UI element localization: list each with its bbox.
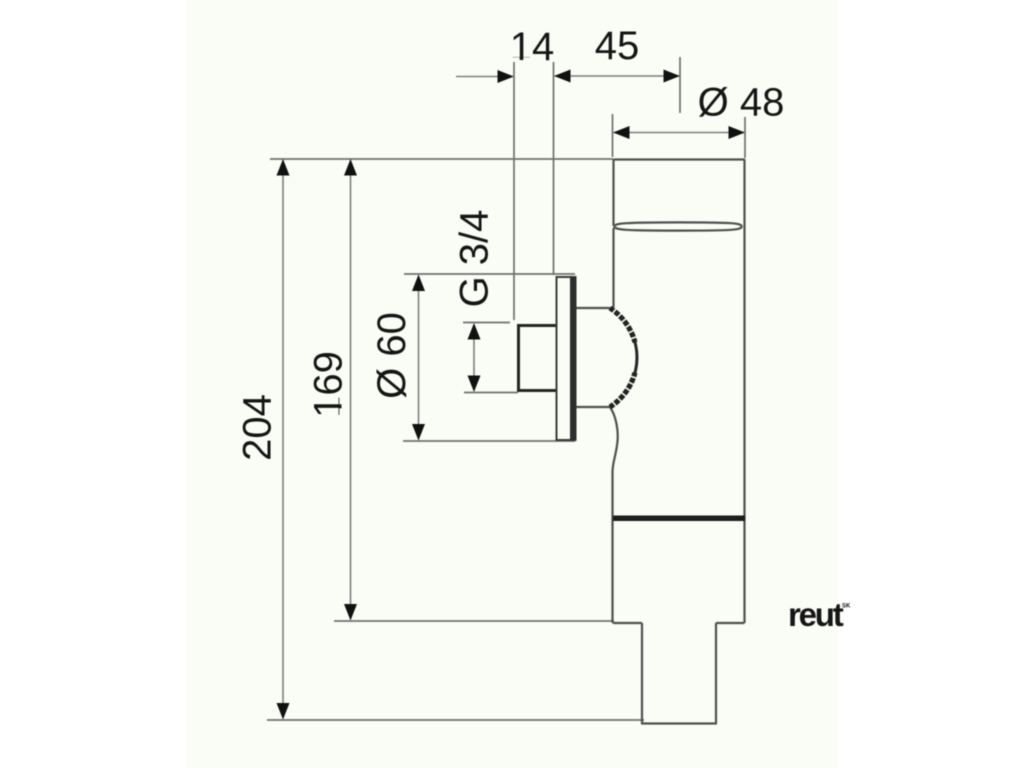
body main outline	[610, 226, 745, 623]
outlet pipe	[641, 623, 717, 724]
extension line bottom for 169	[334, 620, 614, 622]
dimension 45	[554, 24, 680, 83]
svg-text:204: 204	[236, 394, 280, 461]
svg-text:169: 169	[307, 351, 351, 418]
svg-text:SK: SK	[842, 604, 851, 610]
svg-text:14: 14	[510, 25, 555, 69]
svg-text:reut: reut	[788, 596, 844, 633]
extension line G3/4 bottom	[464, 392, 518, 394]
svg-text:Ø 60: Ø 60	[370, 312, 414, 399]
svg-text:Ø 48: Ø 48	[698, 81, 785, 125]
cap joint seam	[614, 222, 742, 230]
reut logo	[788, 596, 851, 633]
dimension 204	[236, 159, 290, 720]
extension line bottom for 204	[267, 719, 644, 721]
extension line G3/4 top	[463, 322, 510, 324]
extension line top for 204/169	[270, 158, 613, 160]
dome bulge	[576, 308, 637, 407]
dimension G 3/4	[453, 210, 497, 392]
extension line diameter60 top	[404, 273, 575, 275]
dimension diameter 60	[370, 275, 425, 441]
extension line diameter48 left	[612, 114, 614, 157]
svg-text:G 3/4: G 3/4	[453, 210, 497, 308]
extension line 14 left	[513, 62, 515, 320]
dimension 14 leader and arrow	[456, 25, 554, 83]
inlet spigot G3/4	[517, 324, 556, 392]
dimension diameter 48	[613, 81, 784, 140]
dome hatching bottom	[610, 373, 638, 408]
wall flange	[557, 277, 577, 440]
valve body top cap	[614, 159, 745, 226]
extension line 45 right	[679, 57, 681, 113]
photo background strip	[186, 0, 838, 768]
dome hatching top	[610, 308, 638, 343]
extension line diameter60 bottom	[403, 440, 575, 442]
svg-text:45: 45	[595, 24, 640, 68]
extension line 14 right	[553, 62, 555, 275]
dimension 169	[307, 159, 358, 621]
extension line diameter48 right	[744, 117, 746, 158]
body joint thick line	[613, 516, 745, 522]
